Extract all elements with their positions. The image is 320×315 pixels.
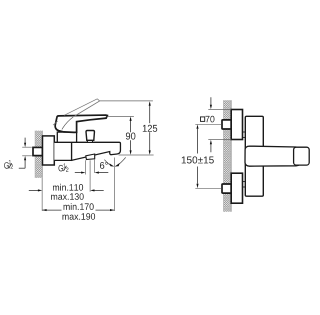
top escutcheon [231, 110, 242, 140]
wall escutcheon flange [43, 136, 55, 165]
spout [72, 142, 121, 160]
G1/2 outlet dimension left arrow [75, 172, 82, 174]
bottom escutcheon [231, 173, 242, 203]
handle bar [245, 146, 301, 166]
125 dimension [149, 103, 151, 153]
cartridge collar [57, 132, 76, 142]
label max.190 [63, 213, 96, 220]
label 70 [206, 116, 215, 123]
label 90 [126, 133, 135, 140]
6 degree arc [104, 160, 113, 167]
min110 dimension [29, 189, 104, 191]
label min.170 [64, 203, 94, 210]
extension line spout bottom [119, 154, 154, 156]
handle facet line [62, 117, 73, 129]
wall section hatch [35, 131, 42, 178]
diverter knob [87, 140, 92, 142]
label 6 deg [100, 162, 108, 169]
top G1/2 nipple [222, 120, 231, 129]
label 125 [143, 125, 157, 132]
phantom raised handle [53, 99, 100, 125]
G1/2 outlet dimension right arrow [99, 172, 109, 174]
G1/2 inlet nipple through wall [33, 147, 42, 155]
shower outlet extension A [85, 160, 87, 174]
spout tip extension [113, 158, 115, 212]
top nipple center extension [195, 123, 221, 125]
shower outlet extension B [89, 160, 91, 192]
wall section hatch [223, 100, 231, 212]
body column [245, 116, 263, 196]
lever handle (rest position) [55, 115, 107, 132]
escutcheon bottom edge extension [208, 139, 231, 141]
label G1/2 shower outlet [59, 164, 69, 172]
150+-15 dimension [197, 129, 199, 184]
handle end cap [294, 147, 310, 165]
extension line raised tip (125) [99, 100, 152, 102]
escutcheon top edge extension [208, 109, 231, 111]
min170 dimension [42, 209, 61, 211]
label min.110 [53, 184, 83, 191]
hand-shower outlet under spout [86, 154, 95, 160]
label max.130 [51, 193, 84, 200]
label square symbol for 70 [201, 117, 205, 122]
valve body [54, 142, 71, 160]
label 150 +/- 15 [182, 156, 214, 163]
90 dimension [130, 118, 132, 153]
bottom nipple center extension [195, 187, 221, 189]
shower outlet extension C [93, 160, 95, 173]
wall face extension [41, 178, 43, 211]
G1/2 vertical dimension [19, 138, 25, 169]
bottom G1/2 nipple [222, 184, 231, 193]
connector slivers [243, 132, 246, 187]
label G1/2 inlet [4, 160, 13, 169]
extension line handle top (90) [108, 115, 134, 117]
square70 dimension [210, 97, 212, 152]
nipple edge extensions [22, 146, 32, 148]
